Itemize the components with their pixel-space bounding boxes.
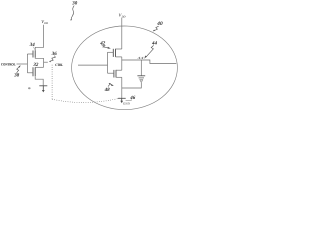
stray mark xyxy=(28,87,31,89)
leader arrow for 40 xyxy=(154,26,158,30)
enclosure ellipse (right circuit boundary) xyxy=(72,26,178,110)
wire gate line (in ellipse) xyxy=(107,52,109,73)
wire output right (in ellipse) xyxy=(122,60,177,64)
wire mid rail right xyxy=(121,57,123,70)
wire dotted CTRL path right xyxy=(52,98,121,103)
svg-text:CONTROL: CONTROL xyxy=(1,62,16,66)
svg-text:48: 48 xyxy=(104,87,111,93)
wire external input (in ellipse) xyxy=(78,64,108,66)
wire M2 source to ground xyxy=(35,76,43,85)
transistor M1 PMOS (left circuit top) xyxy=(33,51,35,58)
wire dotted CTRL path down xyxy=(51,65,53,99)
node VDD (right circuit) label xyxy=(119,13,126,19)
wire M3 source stub xyxy=(116,48,122,50)
wire capacitor bottom to ground rail xyxy=(122,83,142,88)
svg-text:44: 44 xyxy=(137,56,144,60)
svg-text:32: 32 xyxy=(32,62,39,68)
wire output tap right xyxy=(44,61,48,63)
svg-text:GND: GND xyxy=(123,101,131,105)
wire M4 source stub xyxy=(116,76,122,78)
wire output node rail (left) xyxy=(43,58,45,67)
svg-text:30: 30 xyxy=(71,1,78,7)
transistor M3 PMOS (in ellipse, upper) xyxy=(113,49,115,57)
wire VDD rail left xyxy=(35,25,43,51)
svg-text:CTRL: CTRL xyxy=(55,63,64,67)
svg-text:34: 34 xyxy=(29,42,36,48)
wire M2 gate lead xyxy=(27,72,33,74)
leader arrow for 42 xyxy=(102,45,108,48)
ground (right circuit) xyxy=(118,98,126,101)
leader arrow for 48 xyxy=(108,83,112,86)
wire common gate line (left circuit) xyxy=(26,54,28,73)
wire M1 drain to output rail xyxy=(35,57,43,60)
leader squiggle for 30 xyxy=(71,6,74,20)
svg-text:46: 46 xyxy=(129,95,136,101)
svg-text:36: 36 xyxy=(51,51,58,57)
capacitor C1 lower plate xyxy=(139,77,144,79)
svg-text:38: 38 xyxy=(13,73,20,79)
wire CONTROL input xyxy=(17,63,28,65)
leader for 46 xyxy=(126,99,132,100)
diode D1 (triangle) xyxy=(140,80,143,83)
leader arrow for 36 xyxy=(50,56,56,62)
wire lower rail to ground xyxy=(121,77,123,98)
wire M1 gate lead xyxy=(27,53,33,55)
wire M3 gate lead xyxy=(108,51,114,53)
svg-text:DD: DD xyxy=(121,16,126,19)
transistor M2 NMOS (left circuit bottom) xyxy=(33,67,35,76)
leader for 34 xyxy=(33,47,35,50)
capacitor C1 plate xyxy=(137,75,145,77)
wire M4 drain stub xyxy=(116,69,122,71)
leader arrow for 38 xyxy=(17,67,20,73)
wire VDD rail right xyxy=(121,18,123,49)
wire M3 drain stub xyxy=(116,56,122,58)
wire M4 gate lead xyxy=(108,72,114,74)
wire M2 drain stub xyxy=(35,66,43,68)
node VDD (left circuit) label xyxy=(41,19,48,25)
svg-text:40: 40 xyxy=(156,21,163,27)
svg-text:44: 44 xyxy=(151,40,158,46)
capacitor branch lead xyxy=(140,60,142,76)
transistor M4 NMOS (in ellipse, lower) xyxy=(114,70,116,78)
svg-text:DD: DD xyxy=(43,22,48,25)
leader arrow for 44 xyxy=(146,45,154,57)
ground (left circuit) xyxy=(39,86,47,91)
